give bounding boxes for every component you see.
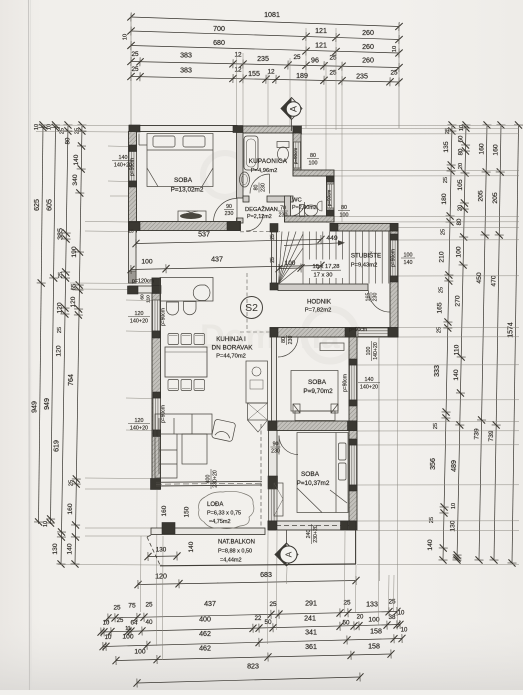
svg-text:130: 130 — [156, 547, 167, 554]
svg-text:619: 619 — [53, 440, 61, 452]
wardrobe in SOBA 10,37 — [274, 483, 283, 516]
svg-text:437: 437 — [204, 600, 216, 608]
svg-text:340: 340 — [72, 174, 79, 185]
svg-text:437: 437 — [211, 256, 223, 264]
svg-text:25: 25 — [270, 257, 276, 263]
svg-text:680: 680 — [213, 39, 225, 47]
door arc DEGAZMAN entry — [246, 214, 263, 231]
svg-text:120: 120 — [135, 311, 144, 317]
svg-text:P=9,70m2: P=9,70m2 — [303, 388, 333, 395]
svg-text:LOĐA: LOĐA — [207, 502, 223, 508]
svg-text:10: 10 — [459, 125, 465, 131]
window in west wall of SOBA 13,02 — [129, 151, 137, 181]
apartment label S2 — [241, 297, 263, 319]
svg-text:140: 140 — [365, 377, 374, 383]
svg-text:120: 120 — [135, 418, 144, 424]
short west wall below SOBA 13,02 — [129, 231, 137, 284]
svg-text:121: 121 — [315, 42, 327, 50]
column block top of stair hall west wall — [270, 224, 278, 233]
svg-text:80: 80 — [281, 337, 287, 343]
svg-text:235: 235 — [356, 73, 368, 81]
dining table with chairs — [165, 347, 207, 377]
window in east wall of KUPAONICA — [294, 142, 301, 168]
svg-text:12: 12 — [234, 52, 242, 59]
svg-text:235: 235 — [257, 55, 269, 63]
window in east wall of SOBA 10,37 — [350, 445, 357, 485]
svg-text:25: 25 — [57, 327, 63, 333]
svg-text:P=7,82m2: P=7,82m2 — [305, 308, 332, 314]
svg-text:80: 80 — [341, 205, 347, 211]
svg-text:121: 121 — [315, 27, 327, 35]
svg-text:=4,75m2: =4,75m2 — [209, 519, 231, 525]
svg-text:50: 50 — [264, 619, 272, 626]
stair width dim 100 — [275, 263, 304, 273]
LODJA label with revision cloud — [199, 491, 254, 528]
svg-text:11: 11 — [125, 626, 130, 632]
svg-text:1574: 1574 — [508, 322, 515, 338]
door arc SOBA 13,02 (90/230) — [214, 199, 238, 223]
svg-text:25: 25 — [438, 287, 444, 293]
svg-text:100: 100 — [122, 634, 133, 641]
stair void dashed lines — [246, 273, 248, 332]
top dimension chain row 5: 25 383 12 155 12 189 25 235 25 — [127, 72, 402, 87]
exterior north wall of bedroom SOBA 13,02 — [129, 126, 237, 132]
svg-text:140+20: 140+20 — [360, 384, 378, 390]
door arc KUPAONICA (80/230) — [250, 174, 270, 194]
svg-text:P=2,90m2: P=2,90m2 — [292, 205, 317, 211]
svg-text:260: 260 — [362, 29, 374, 37]
svg-text:10: 10 — [451, 503, 457, 509]
svg-text:160: 160 — [479, 143, 486, 155]
svg-text:400: 400 — [199, 616, 211, 624]
hidden edge dashes below south wall — [240, 231, 280, 233]
svg-text:50: 50 — [342, 620, 350, 627]
left extension lines — [36, 124, 131, 127]
svg-text:230: 230 — [225, 211, 234, 217]
window in hallway south wall — [358, 328, 388, 337]
west wall of SOBA 10,37 with window — [269, 431, 278, 477]
svg-text:25: 25 — [131, 51, 139, 58]
south wall of SOBA 10,37 with glazing — [268, 521, 356, 530]
svg-text:A: A — [284, 551, 294, 557]
wall between staircase and hallway HODNIK with door — [278, 284, 368, 291]
svg-text:P=44,70m2: P=44,70m2 — [216, 354, 246, 360]
svg-text:160: 160 — [161, 505, 168, 516]
svg-text:605: 605 — [46, 199, 54, 211]
svg-text:25: 25 — [75, 128, 81, 134]
svg-text:p=90cm: p=90cm — [391, 249, 397, 267]
svg-text:240: 240 — [306, 530, 312, 539]
bottom dimension row B1: 120 683 — [134, 576, 359, 589]
svg-text:341: 341 — [305, 629, 317, 637]
svg-text:p=90cm: p=90cm — [343, 374, 349, 392]
svg-text:230: 230 — [279, 213, 288, 219]
svg-text:25: 25 — [293, 54, 301, 61]
window in east wall of SOBA 9,70 — [350, 365, 357, 400]
south wall of WC — [285, 216, 335, 222]
column block NE corner of bathroom — [293, 126, 302, 134]
svg-text:150: 150 — [184, 506, 191, 517]
svg-text:P=8,88 x 0,50: P=8,88 x 0,50 — [218, 549, 252, 555]
washing machine in KUPAONICA — [240, 172, 250, 187]
svg-text:165: 165 — [365, 293, 371, 302]
bed in SOBA 9,70 — [291, 371, 338, 421]
right dimension chain R5: 1574 — [507, 121, 523, 566]
bed in SOBA 10,37 — [297, 433, 348, 513]
svg-text:100: 100 — [340, 212, 349, 218]
west exterior wall of living room with two windows — [152, 278, 161, 489]
svg-text:105: 105 — [457, 179, 464, 190]
svg-text:823: 823 — [247, 663, 259, 671]
svg-text:p=90cm: p=90cm — [327, 190, 332, 207]
block at LODJA parapet step — [162, 523, 175, 535]
svg-text:1081: 1081 — [264, 11, 280, 19]
svg-text:96: 96 — [311, 57, 319, 65]
svg-text:140+20: 140+20 — [130, 318, 148, 324]
svg-text:SOBA: SOBA — [308, 379, 327, 386]
svg-text:HODNIK: HODNIK — [307, 299, 332, 306]
svg-text:20: 20 — [357, 615, 364, 621]
bottom dimension row B3: 10 25 64 11 40 400 22 50 241 50 20 100 38 10 — [97, 620, 403, 637]
kitchen appliance (stove/fridge) — [248, 403, 268, 420]
step wall between KUPAONICA and WC (north wall of WC) — [293, 170, 334, 176]
balcony NAT.BALKON south edge — [160, 564, 356, 566]
top dimension chain row 2: 700 121 260 — [127, 26, 402, 44]
corner sofa — [155, 414, 212, 478]
svg-text:A: A — [289, 106, 299, 112]
svg-text:140+20: 140+20 — [130, 425, 148, 431]
svg-text:130: 130 — [450, 520, 457, 531]
svg-text:p=90cm: p=90cm — [130, 158, 136, 176]
svg-text:130: 130 — [52, 543, 59, 554]
rotated window specs — [366, 341, 379, 361]
wall between bedrooms SOBA 9,70 and SOBA 10,37 — [268, 421, 357, 431]
svg-text:449: 449 — [326, 235, 337, 242]
svg-text:p=90cm: p=90cm — [349, 327, 367, 333]
svg-text:P=10,37m2: P=10,37m2 — [297, 480, 330, 487]
svg-text:165: 165 — [437, 302, 444, 313]
svg-text:462: 462 — [199, 645, 211, 653]
svg-text:462: 462 — [199, 630, 211, 638]
svg-text:17 x 30: 17 x 30 — [313, 273, 332, 279]
svg-text:383: 383 — [180, 52, 192, 60]
bottom dimension row B2: 25 75 25 437 25 291 25 133 25 — [104, 607, 400, 623]
kitchen counter with sink — [246, 361, 268, 403]
svg-text:361: 361 — [305, 643, 317, 651]
toilet in WC — [300, 205, 305, 217]
svg-text:25: 25 — [58, 272, 64, 278]
svg-text:100: 100 — [309, 160, 318, 166]
svg-text:140: 140 — [427, 539, 434, 550]
svg-text:P=9,43m2: P=9,43m2 — [351, 263, 378, 269]
svg-text:489: 489 — [450, 460, 458, 472]
door arc HODNIK to SOBA 9,70 (80/230) — [278, 337, 298, 357]
svg-text:STUBIŠTE: STUBIŠTE — [351, 253, 381, 260]
column block west wall SOBA 10,37 — [268, 476, 278, 489]
svg-text:NAT.BALKON: NAT.BALKON — [218, 540, 255, 546]
svg-text:80: 80 — [66, 137, 72, 144]
svg-text:P=2,12m2: P=2,12m2 — [247, 214, 272, 220]
svg-text:DEGAŽMAN: DEGAŽMAN — [245, 205, 278, 213]
svg-text:10: 10 — [123, 34, 129, 40]
svg-text:=4,44m2: =4,44m2 — [220, 558, 242, 564]
north wall of bathroom KUPAONICA — [237, 126, 301, 133]
bottom dimension row B4: 10 100 462 341 158 10 — [99, 634, 405, 651]
svg-text:18 x 17,28: 18 x 17,28 — [312, 264, 339, 270]
west exterior wall upper (SOBA 13,02) with window — [129, 132, 137, 233]
svg-text:140: 140 — [453, 369, 460, 380]
svg-text:400: 400 — [205, 475, 211, 484]
svg-text:230: 230 — [271, 449, 280, 455]
svg-text:90: 90 — [273, 441, 279, 447]
svg-text:537: 537 — [198, 231, 210, 239]
svg-text:25: 25 — [429, 517, 435, 523]
stair direction arrow 449 — [284, 243, 338, 246]
svg-text:230: 230 — [261, 183, 267, 192]
LODJA south parapet wall — [151, 528, 265, 535]
svg-text:22: 22 — [255, 616, 262, 622]
partition between DEGAZMAN and WC — [285, 196, 291, 222]
desk and chairs in living room — [160, 278, 213, 302]
svg-text:120: 120 — [56, 345, 63, 356]
svg-text:40: 40 — [145, 619, 153, 626]
north wall of staircase STUBISTE — [330, 224, 398, 232]
column block at partition top — [233, 126, 243, 133]
svg-text:333: 333 — [433, 365, 441, 377]
svg-text:25: 25 — [388, 599, 396, 606]
svg-text:60: 60 — [459, 135, 465, 142]
svg-text:25: 25 — [437, 327, 443, 333]
armchair — [211, 419, 235, 442]
top dimension chain row 4: 25 383 12 235 25 96 25 260 — [127, 57, 402, 72]
toilet in KUPAONICA — [277, 142, 289, 148]
washbasin in WC — [317, 201, 322, 211]
partition west of SOBA 9,70 — [272, 337, 277, 421]
LODJA glazed wall (400/230+20) — [156, 481, 262, 482]
south wall of KUPAONICA with door opening — [243, 196, 249, 202]
svg-text:p=90cm: p=90cm — [161, 405, 167, 423]
bottom dimension row B5: 100 462 361 158 — [112, 649, 394, 665]
top dimension chain row 1: 1081 — [127, 12, 403, 31]
TV dresser in SOBA 13,02 — [178, 211, 206, 222]
svg-text:10: 10 — [43, 521, 49, 527]
parapet wall p=120cm — [129, 286, 160, 293]
svg-text:356: 356 — [429, 458, 437, 470]
door arc WC (70/230) — [291, 202, 305, 216]
svg-text:160: 160 — [493, 144, 500, 156]
svg-text:739: 739 — [488, 430, 495, 442]
staircase treads — [303, 232, 389, 284]
balcony east edge — [355, 530, 357, 565]
door arc HODNIK to staircase (165/230) — [369, 291, 391, 313]
coffee table — [182, 434, 207, 464]
svg-text:S2: S2 — [245, 302, 258, 314]
svg-text:120: 120 — [57, 302, 64, 313]
right dimension chain R3: 160 205 450 739 — [474, 121, 491, 563]
svg-text:64: 64 — [130, 620, 138, 627]
stair label 18 x 17,28 / 17 x 30 — [306, 260, 347, 279]
svg-text:25: 25 — [113, 605, 121, 612]
svg-text:140: 140 — [73, 154, 80, 165]
right dimension chain R2: 10 60 20 80 105 20 80 100 270 110 140 489 10 130 — [452, 121, 470, 563]
svg-text:25: 25 — [117, 618, 124, 624]
bottom extension lines — [140, 536, 143, 612]
svg-text:60: 60 — [140, 294, 146, 300]
svg-text:20: 20 — [457, 205, 463, 211]
top dimension chain row 3: 680 121 260 — [127, 41, 402, 58]
svg-text:80: 80 — [253, 185, 259, 191]
partition wall between SOBA 13,02 and KUPAONICA — [237, 133, 244, 199]
window between LODJA and SOBA 10,37 — [269, 489, 278, 521]
svg-text:DN BORAVAK: DN BORAVAK — [212, 345, 254, 352]
dim 537 inside plan — [132, 235, 324, 248]
bathtub in KUPAONICA — [244, 136, 258, 170]
svg-text:25: 25 — [270, 234, 276, 240]
bed in SOBA 13,02 — [139, 134, 213, 187]
svg-text:25: 25 — [145, 602, 153, 609]
svg-text:KUPAONICA: KUPAONICA — [249, 158, 288, 165]
svg-text:SOBA: SOBA — [301, 471, 320, 478]
left dimension chain D: 80 140 340 190 65 120 25 764 160 140 — [70, 121, 86, 567]
svg-text:241: 241 — [304, 615, 316, 623]
top extension lines — [130, 14, 132, 125]
svg-text:10: 10 — [401, 628, 408, 634]
left dimension chain B: 10 605 949 10 — [46, 121, 60, 526]
column block bottom of stair hall west wall — [270, 283, 278, 290]
svg-text:80: 80 — [310, 153, 316, 159]
svg-text:25: 25 — [69, 480, 75, 486]
svg-text:140: 140 — [119, 155, 128, 161]
svg-text:25: 25 — [390, 70, 398, 77]
thin west wall of stair hall — [272, 232, 277, 283]
svg-text:700: 700 — [213, 25, 225, 33]
svg-text:385: 385 — [57, 228, 65, 240]
window 1 in living room west wall — [153, 300, 161, 331]
LODJA east boundary dashed — [260, 424, 262, 528]
svg-text:739: 739 — [473, 428, 480, 440]
svg-text:70: 70 — [280, 205, 286, 211]
window in staircase east wall — [391, 240, 398, 276]
svg-text:12: 12 — [267, 69, 275, 76]
svg-text:210: 210 — [439, 251, 446, 262]
svg-text:100: 100 — [134, 649, 145, 656]
window in east wall of WC — [327, 184, 334, 208]
svg-text:158: 158 — [368, 643, 380, 651]
svg-text:683: 683 — [260, 571, 272, 579]
svg-text:75: 75 — [128, 603, 136, 610]
scan page fold line left edge — [29, 0, 30, 690]
svg-text:p=90cm: p=90cm — [161, 308, 167, 326]
column block SW of SOBA 13,02 — [129, 222, 141, 231]
right dimension chain R1: 25 135 25 180 25 210 25 165 25 333 25 356 25 140 — [438, 121, 456, 563]
svg-text:260: 260 — [362, 57, 374, 65]
right dimension chain R4: 160 205 470 739 — [489, 121, 505, 563]
svg-text:949: 949 — [31, 401, 39, 413]
svg-text:205: 205 — [478, 190, 485, 202]
svg-text:230+20: 230+20 — [313, 525, 319, 543]
svg-text:230+20: 230+20 — [213, 470, 219, 488]
svg-text:230: 230 — [288, 336, 294, 345]
svg-text:25: 25 — [433, 423, 439, 429]
svg-text:25: 25 — [441, 229, 447, 235]
column block NW corner — [129, 125, 140, 132]
section marker A (top) — [291, 119, 293, 131]
svg-text:25: 25 — [269, 601, 277, 608]
svg-text:90: 90 — [226, 204, 232, 210]
svg-text:110: 110 — [146, 295, 152, 303]
svg-text:160: 160 — [67, 503, 74, 514]
balcony west open edge (diagonal dashes) — [147, 537, 160, 565]
svg-text:10: 10 — [105, 635, 112, 641]
svg-text:100: 100 — [455, 246, 462, 257]
svg-text:10: 10 — [398, 611, 405, 617]
svg-text:133: 133 — [366, 601, 378, 609]
window 2 in living room west wall — [153, 398, 161, 430]
east wall of KUPAONICA with window — [293, 133, 301, 175]
svg-text:100: 100 — [404, 252, 413, 258]
svg-text:WC: WC — [292, 198, 302, 204]
shelf in SOBA 9,70 — [320, 343, 344, 351]
svg-text:949: 949 — [43, 398, 51, 410]
staircase winder treads — [279, 232, 304, 285]
svg-text:P=13,02m2: P=13,02m2 — [171, 187, 204, 194]
section marker A (bottom) — [286, 530, 288, 544]
svg-text:120: 120 — [70, 296, 77, 307]
svg-text:230: 230 — [373, 293, 379, 302]
roof overhang line east — [378, 337, 381, 581]
watermark — [200, 153, 356, 361]
svg-text:25: 25 — [128, 228, 134, 234]
svg-text:291: 291 — [305, 600, 317, 608]
east exterior wall of bedrooms with windows — [349, 337, 357, 530]
left dimension chain C: 25 385 25 120 25 120 619 130 — [56, 121, 72, 567]
svg-text:260: 260 — [362, 43, 374, 51]
svg-text:38: 38 — [388, 614, 396, 621]
svg-text:135: 135 — [443, 141, 450, 152]
svg-text:625: 625 — [33, 199, 41, 211]
svg-text:383: 383 — [180, 67, 192, 75]
svg-text:25: 25 — [445, 128, 451, 134]
svg-text:470: 470 — [490, 275, 497, 287]
svg-text:p=90cm: p=90cm — [293, 148, 298, 165]
svg-text:158: 158 — [370, 628, 382, 636]
svg-text:KUHINJA I: KUHINJA I — [216, 336, 246, 343]
svg-text:180: 180 — [441, 193, 448, 204]
svg-text:25: 25 — [131, 66, 139, 73]
dim 449 marker line already; window spec labels — [112, 155, 134, 169]
svg-text:12: 12 — [234, 67, 242, 74]
column block at SOBA door — [227, 222, 240, 231]
svg-text:764: 764 — [67, 374, 75, 386]
svg-text:SOBA: SOBA — [174, 177, 193, 184]
east wall of WC with window — [327, 176, 335, 222]
svg-text:80: 80 — [458, 148, 464, 155]
svg-text:10: 10 — [392, 46, 398, 52]
svg-text:140: 140 — [67, 543, 74, 554]
svg-text:205: 205 — [492, 192, 499, 204]
bottom dimension row B6: 823 — [133, 672, 363, 687]
svg-text:100: 100 — [366, 347, 372, 356]
svg-text:10: 10 — [103, 621, 110, 627]
svg-text:140+20: 140+20 — [373, 342, 379, 360]
svg-text:25: 25 — [60, 128, 66, 134]
svg-text:25: 25 — [443, 177, 449, 183]
south wall of hallway (with window) — [270, 328, 398, 338]
svg-text:110: 110 — [453, 344, 460, 355]
svg-text:100: 100 — [368, 617, 379, 624]
svg-text:190: 190 — [71, 246, 78, 257]
svg-text:140: 140 — [404, 260, 413, 266]
